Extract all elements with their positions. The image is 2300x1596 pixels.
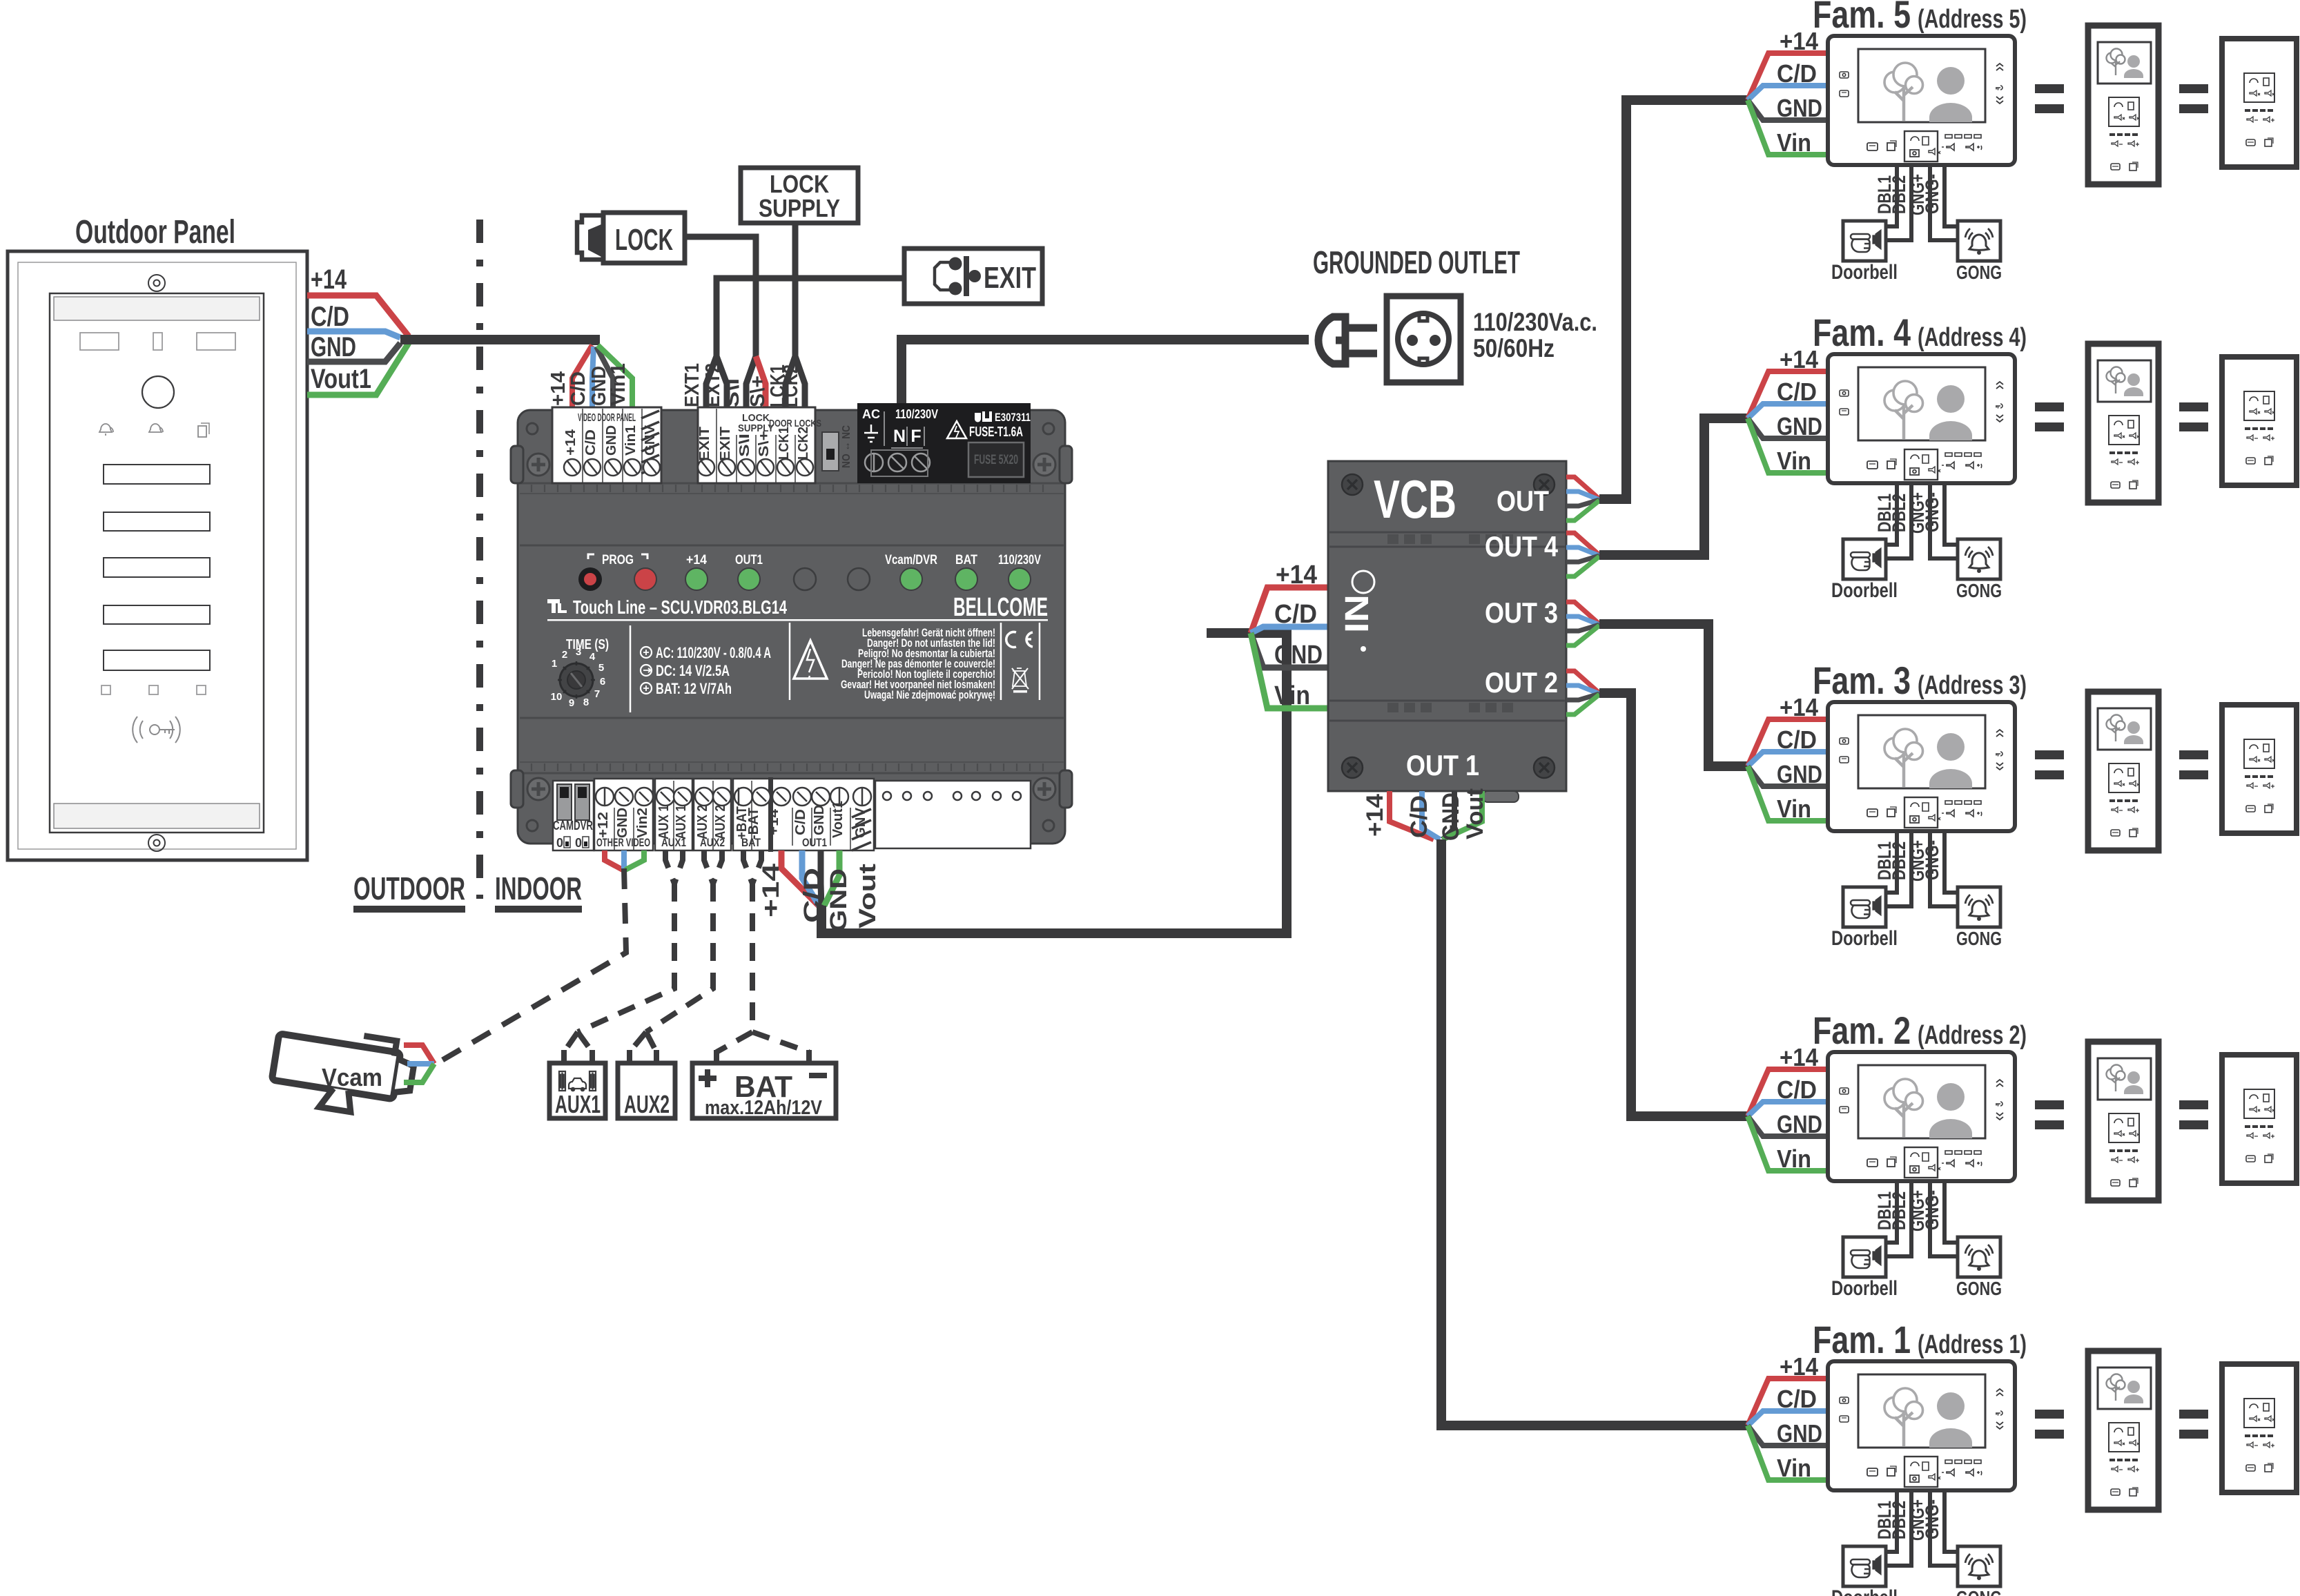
svg-text:GND: GND [826,868,852,932]
NO/NC switch [822,432,839,471]
lock supply terminal pair fan (S\I dark, S\+ red) [746,356,756,409]
svg-text:+14: +14 [758,864,784,917]
OUT1 wire labels [758,864,881,932]
svg-text:AUX 1: AUX 1 [656,805,672,839]
bottom nub [1483,791,1519,802]
svg-text:EXIT: EXIT [984,261,1036,295]
AUX2 dashed pair [646,850,722,1032]
svg-text:+14: +14 [1362,794,1388,837]
svg-text:C/D: C/D [567,371,589,406]
svg-text:C/D: C/D [1406,795,1432,838]
svg-text:Vcam/DVR: Vcam/DVR [885,553,937,567]
VCB OUT4 fan [1566,533,1599,576]
svg-text:LOCK: LOCK [615,223,673,257]
svg-text:8: 8 [583,697,589,708]
bottom strip screws [596,788,871,806]
svg-text:E307311: E307311 [995,411,1031,424]
PROG black led [578,567,602,591]
power wire SCU to plug [902,340,1309,407]
BAT battery box [692,1063,836,1118]
svg-text:7: 7 [594,688,600,700]
svg-text:Vout: Vout [1462,788,1488,839]
OUT1 led [738,568,760,590]
svg-text:Uwaga! Nie zdejmować pokrywę!: Uwaga! Nie zdejmować pokrywę! [864,688,995,701]
heavy divider before OUT1 [768,777,773,852]
VCB OUT2 fan [1566,671,1599,714]
svg-text:OUTDOOR: OUTDOOR [353,870,465,906]
Fam 3 station [1748,692,2297,950]
door lock terminal pair fan [786,356,795,409]
svg-text:C/D: C/D [793,809,808,835]
svg-text:VIDEO DOOR PANEL: VIDEO DOOR PANEL [578,412,636,424]
svg-text:10: 10 [551,691,563,703]
svg-text:Outdoor Panel: Outdoor Panel [75,214,235,251]
svg-text:EXIT: EXIT [718,427,733,461]
VCB OUT1 labels [1362,788,1488,841]
TIME(S) rotary selector [551,637,609,709]
lock icon [577,215,605,260]
SCU corner screws [527,423,1055,831]
svg-text:AUX 1: AUX 1 [674,805,689,839]
svg-text:GNV: GNV [853,807,868,838]
svg-text:(Address 2): (Address 2) [1918,1021,2027,1050]
LOCK SUPPLY box [741,168,858,223]
main cable panel to SCU [400,340,595,345]
svg-text:AUX 2: AUX 2 [695,805,710,839]
svg-text:GND: GND [615,808,630,838]
Fam 2 station [1748,1042,2297,1300]
power spec lines [641,644,771,697]
svg-text:AC: AC [862,407,880,421]
svg-text:110/230V: 110/230V [895,407,938,421]
svg-text:OUT1: OUT1 [735,553,763,567]
svg-text:(Address 3): (Address 3) [1918,671,2027,700]
svg-text:N: N [893,427,906,446]
svg-text:GND: GND [812,805,827,835]
AUX1 box stubs [564,1050,592,1063]
svg-text:+14: +14 [766,808,781,835]
svg-text:50/60Hz: 50/60Hz [1473,334,1555,362]
svg-text:9: 9 [569,697,574,709]
EXIT box [904,249,1042,304]
bottom terminal labels [596,801,846,839]
svg-text:(Address 4): (Address 4) [1918,323,2027,352]
svg-text:CAM: CAM [553,819,574,833]
svg-text:+14: +14 [686,553,707,567]
svg-text:VCB: VCB [1374,469,1456,529]
svg-text:Vin2: Vin2 [635,808,650,838]
svg-text:Vin1: Vin1 [623,425,639,456]
CAM/DVR switch block [553,781,594,850]
terminal labels above strip 2 [681,363,802,407]
AC black terminal block [857,403,1031,483]
svg-text:TIME (S): TIME (S) [566,637,609,652]
product name [547,593,1048,622]
outdoor/indoor separator dashed line [476,220,483,899]
svg-text:Fam. 1: Fam. 1 [1813,1318,1911,1361]
outdoor GND wire [307,343,400,362]
multilingual warnings [841,626,995,701]
svg-text:S\+: S\+ [747,376,769,407]
exit button icon [935,256,981,296]
svg-text:BAT: 12 V/7Ah: BAT: 12 V/7Ah [656,680,732,697]
svg-text:4: 4 [589,651,596,663]
AUX1 dashed pair [578,850,683,1032]
svg-text:BELLCOME: BELLCOME [953,593,1048,622]
svg-text:GROUNDED OUTLET: GROUNDED OUTLET [1313,244,1520,280]
svg-text:AUX2: AUX2 [700,836,725,849]
route OUT to Fam5 [1599,100,1749,499]
PROG red led [634,568,656,590]
panel top screw [148,275,165,291]
LOCK box [603,213,685,263]
panel light windows [80,333,235,350]
svg-text:LCK2: LCK2 [780,364,802,407]
spare leds [794,568,816,590]
svg-text:AUX1: AUX1 [555,1090,601,1118]
svg-text:LCK2: LCK2 [796,427,811,460]
BAT dashed pair [743,850,761,1032]
outdoor panel front plate [50,293,264,833]
wire EXIT to exit terminals [717,278,904,356]
svg-text:AC: 110/230V - 0.8/0.4 A: AC: 110/230V - 0.8/0.4 A [656,644,771,661]
route OUT3 to Fam3 [1599,624,1749,766]
svg-text:5: 5 [598,662,604,674]
svg-text:0: 0 [575,836,582,850]
svg-text:FUSE-T1.6A: FUSE-T1.6A [969,425,1023,440]
led labels [588,553,1041,567]
svg-text:Vin: Vin [1274,681,1310,710]
panel status icons [99,423,209,437]
svg-text:-BAT: -BAT [746,808,761,839]
VCB OUT3 fan [1566,602,1599,645]
svg-text:+14: +14 [1276,561,1317,590]
bottom rib ticks [520,485,1064,771]
VCB OUT(5) fan [1566,477,1599,520]
svg-text:GND: GND [311,332,356,362]
CE mark [1006,632,1033,648]
OUT1 wire fan [781,850,819,906]
trunk wire SCU OUT1 to VCB IN [821,633,1287,933]
svg-text:C/D: C/D [583,429,598,456]
svg-text:+14: +14 [563,429,578,456]
spare connector dots [883,792,1021,800]
svg-text:AUX 2: AUX 2 [713,805,728,839]
panel key reader icon [133,717,180,743]
cell separators bottom strip [614,781,850,850]
svg-text:S\I: S\I [737,434,752,457]
svg-text:PROG: PROG [602,553,634,567]
svg-text:Vin1: Vin1 [607,363,630,406]
svg-text:BAT: BAT [955,553,977,567]
BAT box stubs [717,1050,809,1063]
bottom section names [596,836,827,849]
AUX2 box stubs [630,1050,656,1063]
svg-text:110/230Va.c.: 110/230Va.c. [1473,308,1597,336]
AUX1 box [549,1063,605,1118]
svg-text:SUPPLY: SUPPLY [759,194,840,222]
cable fan into SCU terminals [572,345,592,409]
svg-text:Vout: Vout [855,864,881,928]
SCU mounting ears [511,446,1072,808]
svg-text:NO ↔ NC: NO ↔ NC [841,425,852,468]
route OUT2 to Fam2 [1599,693,1749,1116]
outdoor C/D wire [307,331,400,338]
SCU body [518,410,1065,844]
route OUT1 to Fam1 [1441,839,1749,1425]
outdoor Vout1 wire [307,343,409,395]
WEEE bin icon [1012,668,1029,693]
svg-text:0: 0 [556,836,563,850]
svg-text:Fam. 4: Fam. 4 [1813,311,1911,354]
svg-text:OUT 1: OUT 1 [1406,749,1479,781]
top terminal strip EXIT / LOCK SUPPLY / DOOR LOCKS [697,407,821,483]
svg-text:Fam. 5: Fam. 5 [1813,0,1911,36]
AUX2 box [618,1063,675,1118]
svg-text:+12: +12 [596,812,611,838]
panel name plates [104,465,210,670]
svg-text:S\+: S\+ [757,431,772,457]
svg-text:Vout1: Vout1 [830,801,846,838]
spec column separators [630,623,1040,712]
svg-text:IN: IN [1339,594,1376,633]
plug icon [1318,317,1377,364]
bottom terminal strip boxes [594,779,1031,850]
dashed wire to Vcam [435,868,626,1064]
svg-text:max.12Ah/12V: max.12Ah/12V [705,1097,823,1119]
svg-text:OUT 2: OUT 2 [1485,666,1558,699]
svg-text:Fam. 2: Fam. 2 [1813,1009,1911,1052]
svg-text:LCK1: LCK1 [777,427,792,460]
Vcam camera icon [269,1022,417,1120]
svg-text:INDOOR: INDOOR [495,870,582,906]
svg-text:GND: GND [604,425,619,456]
svg-text:OUT 4: OUT 4 [1485,530,1559,563]
outdoor panel enclosure [8,251,307,860]
outdoor +14 wire [307,295,409,336]
svg-text:Vcam: Vcam [322,1063,382,1091]
Vcam/DVR led [900,568,922,590]
SCU input terminal labels [547,363,630,406]
Fam 5 station [1748,26,2297,284]
route OUT4 to Fam4 [1599,418,1749,555]
svg-text:+14: +14 [547,371,569,406]
top terminal strip VIDEO DOOR PANEL [552,407,661,483]
svg-text:OUT: OUT [1497,485,1549,517]
wire LOCK SUPPLY to door-lock terminals [792,223,799,356]
svg-text:F: F [910,427,921,446]
svg-text:S\I: S\I [721,378,743,407]
svg-text:FUSE 5X20: FUSE 5X20 [974,453,1018,467]
svg-text:DC: 14 V/2.5A: DC: 14 V/2.5A [656,662,730,679]
svg-text:EXT1: EXT1 [681,363,703,407]
Fam 1 station [1748,1351,2297,1596]
OTHER VIDEO wire fan [605,850,623,870]
svg-text:GND: GND [1274,641,1323,670]
panel bottom speaker grille [54,804,260,828]
svg-text:6: 6 [600,676,605,688]
svg-text:C/D: C/D [1274,600,1317,629]
VCB corner screws [1342,474,1555,778]
svg-text:AUX2: AUX2 [624,1090,670,1118]
110/230V led [1008,568,1031,590]
svg-text:OUT 3: OUT 3 [1485,596,1558,629]
hazard triangle [794,641,827,679]
svg-text:OTHER VIDEO: OTHER VIDEO [596,836,650,849]
svg-text:GND: GND [1438,792,1464,841]
svg-text:(Address 1): (Address 1) [1918,1330,2027,1359]
panel top speaker grille [54,297,260,320]
svg-text:2: 2 [562,649,567,661]
socket icon [1387,296,1461,382]
+14 led [685,568,708,590]
panel small squares [101,685,206,694]
wire LOCK to lock-supply terminals [685,237,756,356]
svg-text:GNV: GNV [643,425,658,456]
svg-text:OUT1: OUT1 [802,836,827,849]
VCB body [1328,461,1566,802]
Vcam wire fan [404,1045,434,1064]
exit terminal pair fan [706,356,717,409]
svg-text:EXIT: EXIT [697,427,712,461]
IN led + label [1352,571,1374,593]
svg-text:(Address 5): (Address 5) [1918,5,2027,34]
VCB OUT1 bottom fan [1390,791,1482,839]
svg-text:Fam. 3: Fam. 3 [1813,659,1911,702]
svg-text:+14: +14 [311,264,347,295]
svg-text:1: 1 [552,658,557,670]
svg-text:Vout1: Vout1 [311,364,371,394]
panel camera [142,376,174,408]
Fam 4 station [1748,344,2297,602]
panel bottom screw [148,835,165,851]
svg-text:110/230V: 110/230V [998,553,1041,567]
svg-text:Touch Line – SCU.VDR03.BLG14: Touch Line – SCU.VDR03.BLG14 [573,596,787,618]
BAT led [955,568,977,590]
svg-text:C/D: C/D [311,302,349,332]
VCB IN wire fan [1251,587,1328,633]
svg-text:3: 3 [576,646,581,658]
svg-text:DVR: DVR [574,819,593,833]
